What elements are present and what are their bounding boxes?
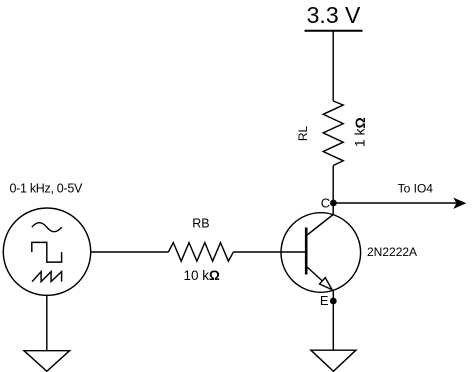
- transistor collector lead: [307, 203, 334, 236]
- signal source V1 body circle: [3, 208, 90, 295]
- svg-text:0-1 kHz, 0-5V: 0-1 kHz, 0-5V: [10, 181, 83, 195]
- node C junction dot: [330, 200, 337, 207]
- transistor emitter arrowhead: [320, 278, 333, 290]
- square wave symbol: [32, 242, 62, 262]
- wire: rail to RL: [332, 31, 334, 101]
- svg-text:1 kΩ: 1 kΩ: [352, 117, 368, 147]
- transistor base bar: [305, 228, 308, 275]
- svg-text:2N2222A: 2N2222A: [367, 245, 417, 259]
- sawtooth wave symbol: [32, 272, 62, 282]
- node E junction dot: [330, 298, 337, 305]
- transistor Q1 2N2222A body circle: [281, 213, 361, 293]
- resistor RL: [323, 101, 343, 166]
- svg-text:10 kΩ: 10 kΩ: [184, 268, 221, 283]
- wire: RB to base: [233, 251, 306, 253]
- wire: node C to IO4 arrow: [333, 202, 458, 204]
- ground (source): [24, 351, 70, 372]
- svg-text:RB: RB: [192, 216, 209, 230]
- wire: RL to node C: [332, 166, 334, 204]
- power rail bar 3.3V: [305, 30, 363, 32]
- resistor RB: [168, 243, 233, 262]
- sine wave symbol: [32, 223, 62, 232]
- svg-text:C: C: [321, 196, 330, 211]
- wire: source to RB: [91, 251, 169, 253]
- transistor emitter lead: [307, 267, 334, 291]
- arrowhead To IO4: [455, 199, 466, 208]
- wire: source to ground: [46, 295, 48, 350]
- svg-text:RL: RL: [296, 126, 310, 142]
- svg-text:To IO4: To IO4: [398, 181, 434, 195]
- svg-text:3.3 V: 3.3 V: [307, 2, 361, 28]
- svg-text:E: E: [320, 293, 329, 308]
- wire: emitter to ground: [332, 291, 334, 351]
- ground (emitter): [311, 350, 356, 371]
